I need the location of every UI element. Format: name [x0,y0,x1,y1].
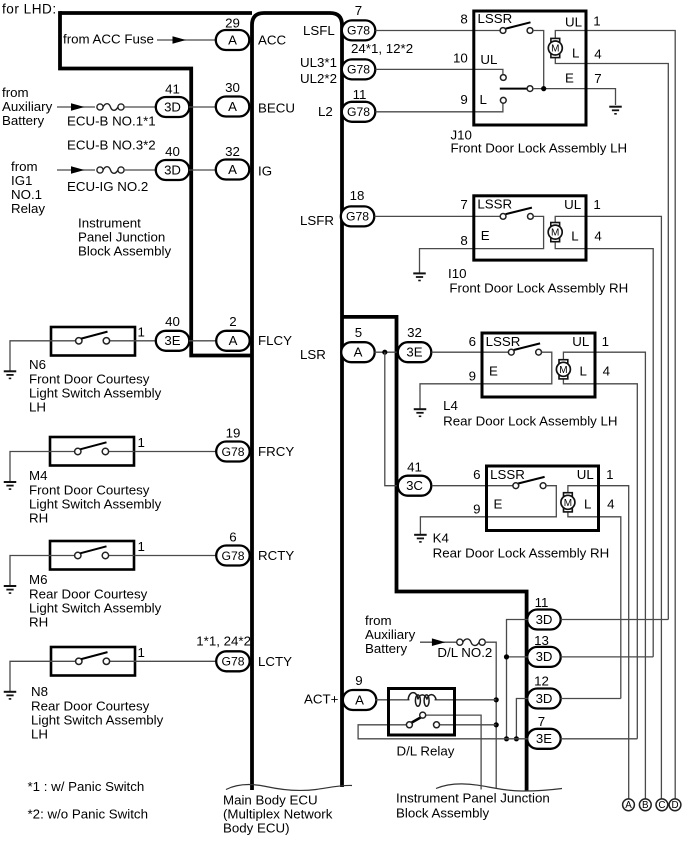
svg-text:LH: LH [31,727,48,742]
svg-text:7: 7 [460,197,467,212]
svg-text:BECU: BECU [258,101,295,116]
svg-text:3E: 3E [406,345,422,360]
svg-text:M6: M6 [29,572,47,587]
svg-text:1: 1 [593,197,600,212]
svg-text:NO.1: NO.1 [11,187,42,202]
svg-text:Front Door Lock Assembly LH: Front Door Lock Assembly LH [451,141,628,156]
svg-text:G78: G78 [221,445,244,459]
svg-text:IG1: IG1 [11,173,32,188]
svg-text:2: 2 [229,314,236,329]
svg-text:7: 7 [355,3,362,18]
svg-text:FRCY: FRCY [258,444,294,459]
svg-text:1: 1 [138,325,145,340]
svg-text:ACT+: ACT+ [304,692,339,707]
svg-text:LSSR: LSSR [478,11,513,26]
svg-text:40: 40 [165,314,180,329]
svg-text:Panel Junction: Panel Junction [78,230,165,245]
svg-text:A: A [229,333,238,348]
svg-text:3D: 3D [536,691,553,706]
svg-text:12: 12 [534,674,549,689]
svg-text:LSSR: LSSR [490,467,525,482]
svg-text:L: L [572,46,579,61]
svg-text:A: A [228,99,237,114]
svg-text:E: E [565,71,574,86]
svg-text:1: 1 [602,334,609,349]
svg-text:G78: G78 [347,105,370,119]
svg-text:1*1, 24*2: 1*1, 24*2 [196,634,251,649]
svg-text:from: from [2,85,29,100]
svg-text:UL: UL [577,467,594,482]
svg-text:9: 9 [469,368,476,383]
svg-text:9: 9 [473,501,480,516]
svg-text:LSSR: LSSR [486,334,521,349]
svg-text:Battery: Battery [365,641,407,656]
svg-text:UL: UL [564,197,581,212]
svg-text:Main Body ECU: Main Body ECU [223,793,318,808]
svg-text:G78: G78 [347,24,370,38]
svg-text:5: 5 [355,325,362,340]
svg-text:13: 13 [534,633,549,648]
svg-text:E: E [489,363,498,378]
svg-text:LSSR: LSSR [477,197,512,212]
svg-text:A: A [228,162,237,177]
svg-text:N8: N8 [31,684,48,699]
svg-text:L: L [571,228,578,243]
svg-text:6: 6 [469,334,476,349]
svg-text:(Multiplex Network: (Multiplex Network [223,807,333,822]
svg-text:LCTY: LCTY [258,654,292,669]
svg-text:3D: 3D [536,649,553,664]
svg-text:ECU-B NO.3*2: ECU-B NO.3*2 [67,138,156,153]
svg-text:9: 9 [355,673,362,688]
svg-text:G78: G78 [221,655,244,669]
svg-text:from: from [365,613,392,628]
svg-text:L: L [480,92,487,107]
svg-text:11: 11 [353,87,367,102]
svg-text:Rear Door Lock Assembly RH: Rear Door Lock Assembly RH [433,546,610,561]
svg-text:Light Switch Assembly: Light Switch Assembly [29,497,162,512]
svg-text:4: 4 [594,228,601,243]
svg-text:6: 6 [229,530,236,545]
svg-text:8: 8 [460,233,467,248]
svg-text:Instrument: Instrument [78,216,141,231]
svg-text:UL2*2: UL2*2 [300,71,337,86]
svg-text:3E: 3E [536,731,552,746]
svg-text:Rear Door Courtesy: Rear Door Courtesy [31,699,150,714]
svg-text:N6: N6 [29,357,46,372]
svg-text:Rear Door Courtesy: Rear Door Courtesy [29,587,148,602]
svg-text:7: 7 [594,71,601,86]
svg-text:G78: G78 [347,63,370,77]
svg-text:RH: RH [29,615,48,630]
svg-text:RCTY: RCTY [258,548,294,563]
svg-text:D: D [671,800,678,811]
svg-text:Light Switch Assembly: Light Switch Assembly [31,713,164,728]
svg-text:LSR: LSR [300,347,326,362]
svg-text:L: L [580,364,587,379]
svg-text:Light Switch Assembly: Light Switch Assembly [29,386,162,401]
svg-text:30: 30 [225,80,240,95]
svg-text:Battery: Battery [2,113,44,128]
svg-text:6: 6 [473,467,480,482]
svg-text:ACC: ACC [258,33,286,48]
svg-text:LSFL: LSFL [303,23,335,38]
svg-text:for LHD:: for LHD: [2,2,57,17]
svg-text:C: C [658,800,665,811]
svg-text:7: 7 [538,714,545,729]
svg-text:18: 18 [350,188,365,203]
svg-text:Light Switch Assembly: Light Switch Assembly [29,601,162,616]
svg-text:*2: w/o Panic Switch: *2: w/o Panic Switch [28,807,148,822]
svg-text:M: M [551,228,559,239]
svg-text:L: L [584,497,591,512]
svg-text:G78: G78 [346,210,369,224]
svg-text:41: 41 [407,460,422,475]
svg-text:from ACC Fuse: from ACC Fuse [63,32,154,47]
svg-text:ECU-IG NO.2: ECU-IG NO.2 [67,179,148,194]
svg-text:3E: 3E [164,333,180,348]
svg-text:UL: UL [480,52,497,67]
svg-text:L4: L4 [443,398,458,413]
svg-text:LH: LH [29,400,46,415]
svg-text:3D: 3D [164,162,181,177]
svg-text:10: 10 [453,50,468,65]
svg-text:Auxiliary: Auxiliary [365,627,416,642]
svg-text:L2: L2 [318,104,333,119]
svg-text:G78: G78 [221,549,244,563]
svg-text:4: 4 [607,497,614,512]
svg-text:A: A [625,800,632,811]
svg-text:1: 1 [138,645,145,660]
svg-text:D/L Relay: D/L Relay [397,744,455,759]
svg-text:1: 1 [606,467,613,482]
svg-text:UL: UL [565,14,582,29]
svg-text:Instrument Panel Junction: Instrument Panel Junction [396,791,550,806]
svg-text:32: 32 [225,144,240,159]
svg-text:RH: RH [29,511,48,526]
svg-text:E: E [494,496,503,511]
svg-text:M4: M4 [29,468,47,483]
svg-text:3D: 3D [536,612,553,627]
svg-text:Front Door Courtesy: Front Door Courtesy [29,483,150,498]
svg-text:Front Door Courtesy: Front Door Courtesy [29,372,150,387]
svg-text:24*1, 12*2: 24*1, 12*2 [351,41,413,56]
svg-text:UL3*1: UL3*1 [300,55,337,70]
svg-text:Block Assembly: Block Assembly [396,806,489,821]
svg-text:Relay: Relay [11,201,45,216]
svg-text:Body ECU): Body ECU) [223,821,290,836]
svg-text:A: A [228,32,237,47]
svg-text:D/L NO.2: D/L NO.2 [437,645,492,660]
svg-text:1: 1 [138,435,145,450]
svg-text:K4: K4 [433,530,449,545]
svg-text:M: M [551,44,559,55]
svg-text:E: E [481,228,490,243]
svg-text:40: 40 [165,144,180,159]
svg-text:11: 11 [535,595,549,610]
svg-text:A: A [354,345,363,360]
svg-text:32: 32 [407,325,422,340]
svg-text:Auxiliary: Auxiliary [2,99,53,114]
svg-text:A: A [355,692,364,707]
svg-text:LSFR: LSFR [300,213,334,228]
svg-text:29: 29 [225,16,240,31]
svg-text:from: from [11,159,38,174]
svg-text:4: 4 [594,47,601,62]
svg-text:1: 1 [138,539,145,554]
svg-text:FLCY: FLCY [258,333,292,348]
svg-text:M: M [564,498,572,509]
svg-text:B: B [642,800,649,811]
svg-text:8: 8 [460,11,467,26]
svg-text:UL: UL [572,334,589,349]
svg-text:41: 41 [165,82,180,97]
svg-text:1: 1 [593,14,600,29]
svg-text:IG: IG [258,164,272,179]
svg-text:19: 19 [226,426,241,441]
svg-text:4: 4 [603,364,610,379]
svg-text:*1 : w/ Panic Switch: *1 : w/ Panic Switch [28,779,145,794]
svg-text:I10: I10 [448,266,467,281]
svg-text:9: 9 [460,92,467,107]
svg-text:ECU-B NO.1*1: ECU-B NO.1*1 [67,114,156,129]
svg-text:Front Door Lock Assembly RH: Front Door Lock Assembly RH [449,281,628,296]
svg-text:3C: 3C [406,478,423,493]
svg-text:3D: 3D [164,99,181,114]
svg-text:Rear Door Lock Assembly LH: Rear Door Lock Assembly LH [443,413,617,428]
svg-text:M: M [559,365,567,376]
svg-text:Block Assembly: Block Assembly [78,244,171,259]
